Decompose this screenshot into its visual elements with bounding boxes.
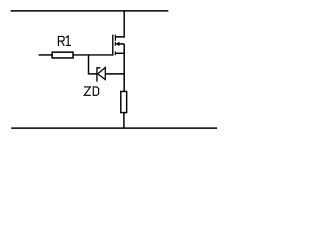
transistor Q1 channel segment (source) [114, 51, 116, 55]
wire: bottom ground rail [11, 127, 217, 129]
resistor R2 (vertical) [121, 91, 127, 112]
transistor Q1 (n-channel MOSFET) gate bar [112, 35, 114, 56]
transistor Q1 channel segment (drain) [114, 35, 116, 41]
wire: R1 left lead [39, 54, 53, 56]
diode ZD (zener): cathode bar with top hook [96, 67, 100, 81]
wire: junction drop to zener cathode [89, 55, 98, 74]
wire: R2 to bottom rail [123, 113, 125, 129]
label ZD [84, 87, 99, 95]
transistor Q1 channel segment (bulk) [114, 42, 116, 46]
wire: top supply rail [11, 10, 169, 12]
resistor R1 [52, 52, 73, 58]
transistor Q1 bulk arrow [116, 42, 119, 45]
wire: source line down to R2 [123, 44, 125, 92]
label R1 [58, 36, 71, 46]
diode ZD (zener): anode triangle [98, 68, 106, 80]
transistor Q1 bulk stub tied to source line [119, 43, 125, 45]
transistor Q1 source stub [116, 52, 124, 54]
transistor Q1 drain stub up to rail [115, 11, 124, 37]
wire: R1 to gate of Q1 [73, 54, 113, 56]
wire: zener anode to source line [105, 73, 124, 75]
